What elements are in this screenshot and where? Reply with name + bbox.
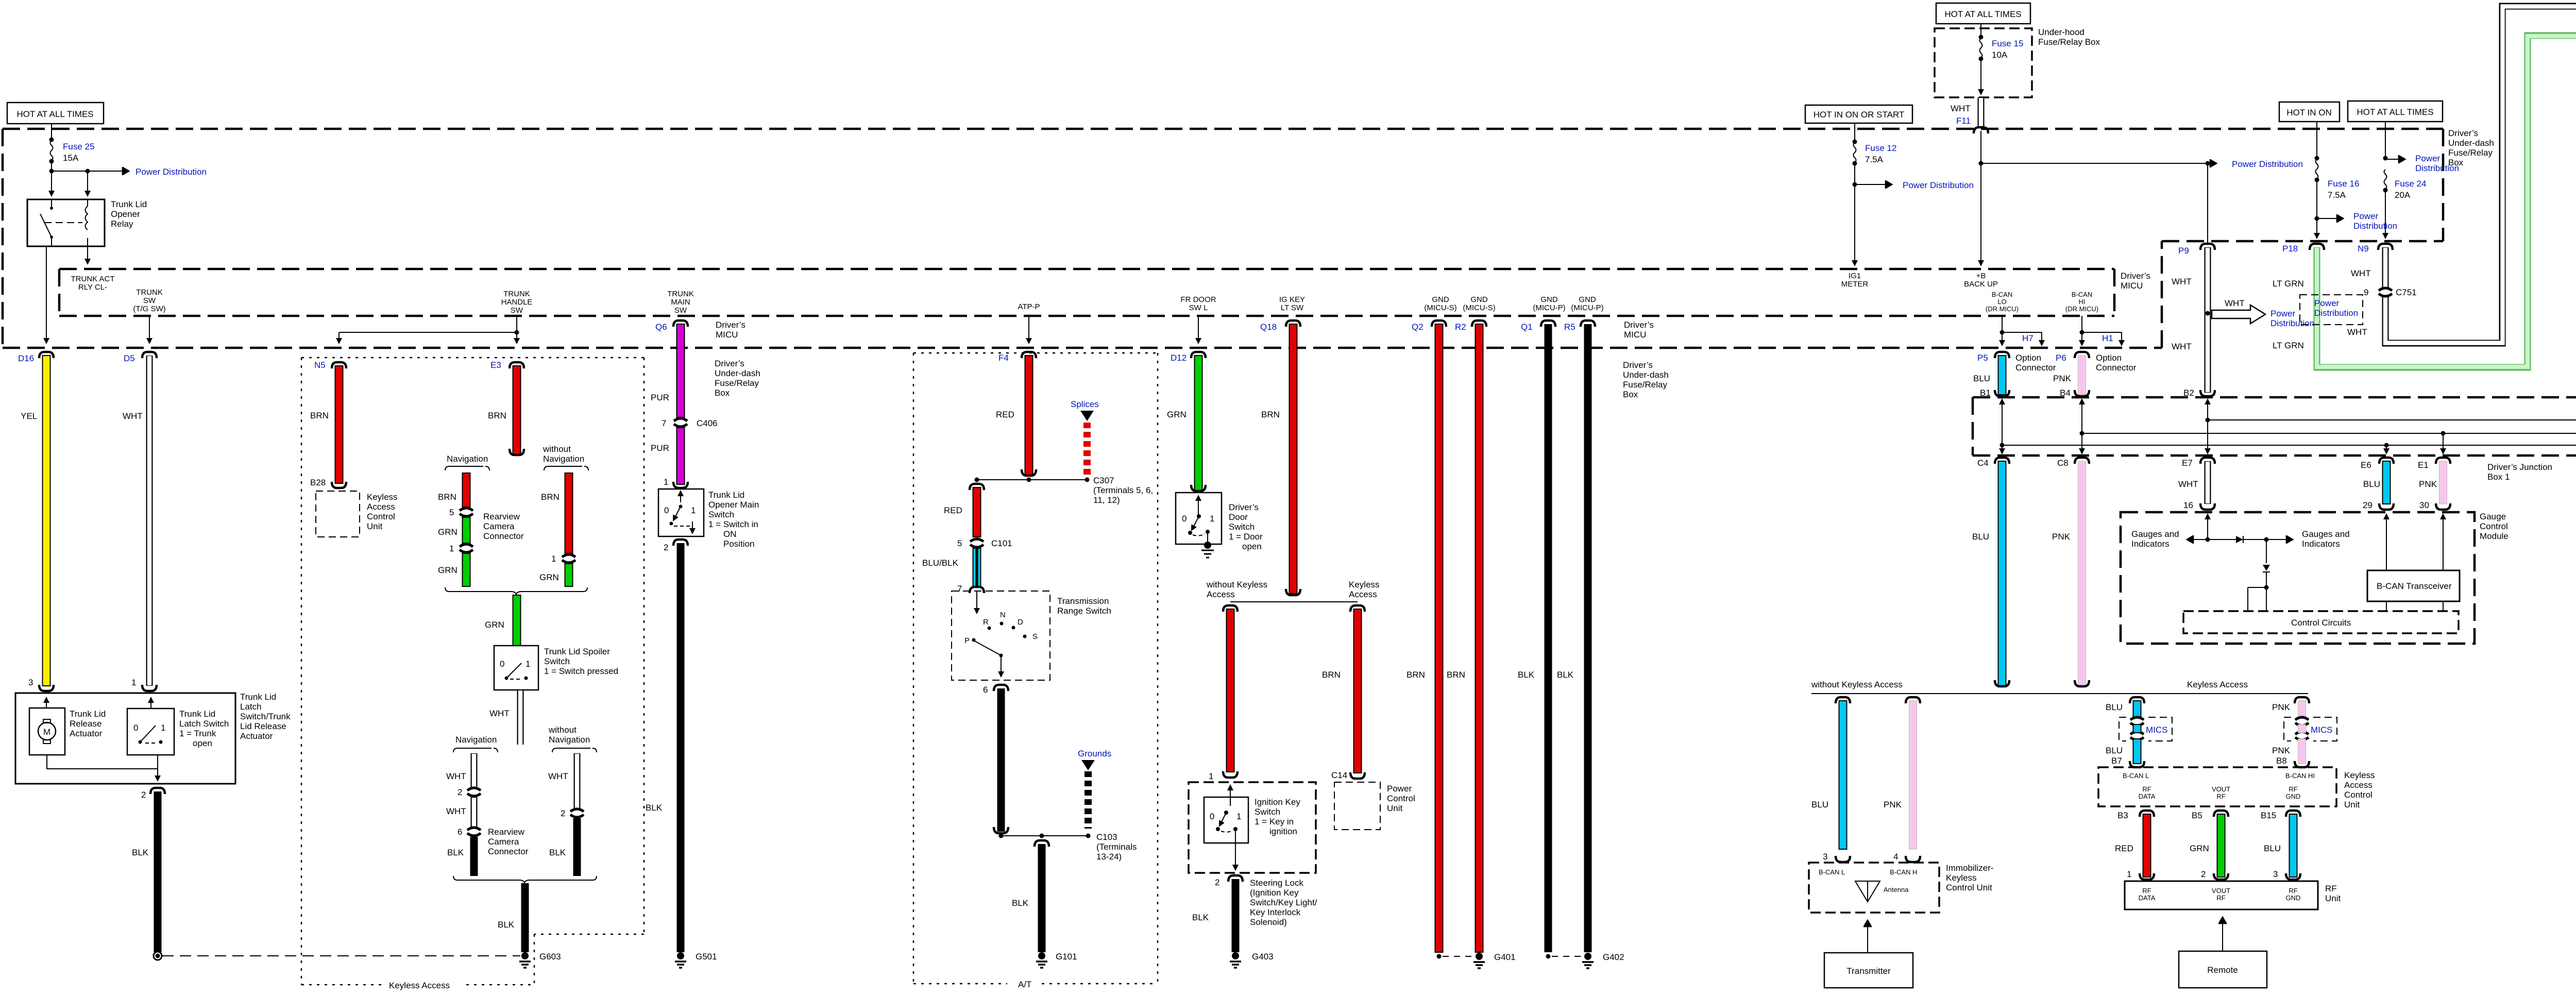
wire PNK without keyless — [1909, 701, 1917, 849]
svg-text:PUR: PUR — [651, 393, 669, 402]
svg-text:2: 2 — [664, 543, 668, 552]
svg-text:BLU: BLU — [2264, 844, 2281, 853]
svg-text:6: 6 — [983, 685, 988, 695]
wire RED dashed splices — [1083, 423, 1091, 477]
svg-text:IG KEY: IG KEY — [1279, 295, 1305, 304]
svg-text:Option: Option — [2096, 353, 2122, 363]
svg-text:BRN: BRN — [438, 492, 456, 502]
svg-text:1: 1 — [551, 554, 556, 564]
wire WHT N9 to C751 and up — [2385, 6, 2576, 343]
svg-text:0: 0 — [1210, 812, 1214, 821]
svg-text:1: 1 — [664, 477, 668, 487]
svg-text:P: P — [964, 636, 970, 645]
svg-text:Connector: Connector — [2096, 363, 2137, 373]
wire fuse25 feed — [51, 124, 52, 139]
svg-text:B7: B7 — [2111, 756, 2122, 766]
svg-text:HOT AT ALL TIMES: HOT AT ALL TIMES — [2357, 107, 2433, 117]
power distribution arrow fuse12 — [1853, 182, 1857, 187]
svg-text:GND: GND — [1470, 295, 1488, 304]
svg-text:Steering Lock: Steering Lock — [1250, 878, 1303, 888]
svg-text:Power Distribution: Power Distribution — [135, 167, 207, 177]
ignition key switch (dashed) — [1189, 782, 1316, 873]
wire RED F4 — [1025, 356, 1033, 475]
label HOT AT ALL TIMES (left) — [7, 103, 104, 124]
wire BRN navigation — [463, 473, 470, 507]
label HOT AT ALL TIMES (right) — [2348, 101, 2443, 122]
wire WHT nav2 right — [574, 753, 581, 808]
wire transmitter RF arrow — [1867, 920, 1868, 953]
wire TRUNK SW to D5 — [149, 316, 150, 343]
svg-text:Range Switch: Range Switch — [1057, 606, 1111, 616]
svg-text:20A: 20A — [2395, 190, 2411, 200]
svg-text:Ignition Key: Ignition Key — [1255, 797, 1300, 807]
svg-text:GND: GND — [1579, 295, 1596, 304]
svg-text:ON: ON — [723, 529, 737, 539]
svg-text:P18: P18 — [2282, 244, 2298, 254]
immobilizer-keyless control unit — [1809, 863, 1939, 913]
svg-text:E3: E3 — [490, 360, 501, 370]
driver's door switch — [1176, 493, 1222, 544]
svg-text:Driver’s Junction: Driver’s Junction — [2487, 462, 2552, 472]
svg-text:SW: SW — [511, 306, 523, 315]
keyless split node — [1230, 601, 1358, 602]
svg-text:BRN: BRN — [1261, 410, 1280, 419]
svg-text:B-CAN L: B-CAN L — [2123, 772, 2149, 780]
svg-text:BLK: BLK — [1012, 898, 1029, 908]
svg-text:HOT IN ON: HOT IN ON — [2286, 108, 2332, 117]
svg-text:FR DOOR: FR DOOR — [1180, 295, 1216, 304]
svg-text:Distribution: Distribution — [2415, 163, 2459, 173]
svg-text:Fuse/Relay: Fuse/Relay — [715, 378, 759, 388]
svg-text:LT SW: LT SW — [1281, 303, 1304, 312]
svg-text:Trunk Lid: Trunk Lid — [708, 490, 744, 500]
trunk lid opener relay — [27, 199, 105, 246]
svg-text:9: 9 — [2364, 288, 2368, 297]
node fuse25 out / power distribution arrow — [49, 169, 54, 174]
svg-text:MICU: MICU — [1624, 330, 1646, 340]
wire F11 to +B BACK UP — [1980, 131, 1981, 265]
svg-text:B-CAN: B-CAN — [1992, 291, 2012, 298]
svg-text:29: 29 — [2363, 500, 2372, 510]
wire BLU/BLK — [973, 548, 981, 586]
fuse F16 7.5A — [2316, 122, 2317, 157]
wire BLK to G403 — [1232, 879, 1240, 952]
wire BLU B15 — [2290, 814, 2297, 877]
svg-text:GRN: GRN — [2190, 844, 2209, 853]
svg-text:Keyless: Keyless — [2344, 770, 2375, 780]
svg-text:WHT: WHT — [446, 771, 466, 781]
wire BRN without keyless to ignition key switch — [1227, 609, 1234, 772]
svg-text:Switch: Switch — [708, 510, 734, 519]
svg-text:Rearview: Rearview — [488, 827, 525, 837]
svg-text:D12: D12 — [1171, 353, 1187, 363]
gauge control module box — [2121, 512, 2475, 644]
svg-text:Immobilizer-: Immobilizer- — [1946, 863, 1994, 873]
svg-text:R: R — [983, 618, 989, 627]
svg-text:MICS: MICS — [2311, 725, 2333, 735]
svg-text:F4: F4 — [998, 353, 1009, 363]
svg-text:Position: Position — [723, 539, 754, 549]
wire BLU keyless B7 upper — [2133, 701, 2141, 718]
svg-text:0: 0 — [500, 659, 504, 669]
wire BRN Q18 — [1290, 324, 1297, 594]
svg-text:0: 0 — [1182, 514, 1187, 524]
svg-text:S: S — [1032, 632, 1038, 641]
svg-text:15A: 15A — [63, 153, 79, 163]
svg-text:GND: GND — [2286, 792, 2301, 800]
svg-text:Power Distribution: Power Distribution — [1903, 180, 1974, 190]
svg-text:2: 2 — [457, 787, 462, 797]
svg-text:13-24): 13-24) — [1096, 852, 1122, 862]
trunk lid latch switch/trunk lid release actuator box — [15, 693, 235, 784]
svg-text:RED: RED — [944, 505, 962, 515]
svg-text:1: 1 — [1210, 514, 1214, 524]
fuse F15 10A — [1980, 24, 1981, 36]
svg-text:P5: P5 — [1977, 353, 1988, 363]
svg-text:Keyless Access: Keyless Access — [2187, 680, 2248, 689]
trunk lid spoiler switch — [494, 646, 538, 690]
svg-text:YEL: YEL — [21, 411, 37, 421]
wire BLK range switch — [997, 688, 1005, 832]
wire B-CAN HI to P6 and H1 — [2081, 316, 2082, 345]
trunk lid release actuator (motor) — [29, 708, 65, 755]
wire BLK C103 to G101 — [1035, 840, 1049, 847]
ground G402 left — [1546, 954, 1551, 959]
svg-text:open: open — [1242, 542, 1262, 551]
wire GRN B5 — [2217, 814, 2225, 877]
node splice at G603 line — [156, 954, 160, 958]
wire B-CAN LO to P5 and H7 — [2002, 316, 2003, 345]
svg-text:Switch/Key Light/: Switch/Key Light/ — [1250, 898, 1317, 907]
ground G101 — [1040, 954, 1044, 958]
svg-text:1: 1 — [526, 659, 530, 669]
wire BLU E6 to 29 — [2383, 461, 2391, 504]
svg-text:open: open — [193, 738, 212, 748]
wire PNK keyless B8 lower — [2298, 739, 2306, 764]
svg-text:C406: C406 — [697, 418, 718, 428]
Driver's MICU box — [59, 269, 2114, 316]
svg-text:7.5A: 7.5A — [1865, 155, 1884, 164]
svg-text:Distribution: Distribution — [2314, 308, 2358, 318]
svg-text:Power: Power — [2415, 154, 2441, 163]
svg-text:1: 1 — [1236, 812, 1241, 821]
svg-text:Splices: Splices — [1071, 399, 1099, 409]
svg-text:Fuse 24: Fuse 24 — [2395, 179, 2426, 189]
svg-text:H7: H7 — [2022, 333, 2033, 343]
wire P9/B2 WHT — [2205, 247, 2211, 393]
wire BLK main switch to G501 — [677, 543, 685, 952]
svg-text:GND: GND — [2286, 894, 2301, 902]
svg-text:PNK: PNK — [2053, 374, 2072, 383]
svg-text:BLK: BLK — [498, 920, 515, 930]
svg-text:G403: G403 — [1252, 952, 1274, 962]
junction box internal E6 tap — [2384, 443, 2389, 448]
keyless access split line — [1811, 693, 2308, 694]
svg-text:RF: RF — [2325, 884, 2337, 893]
svg-text:Power: Power — [2270, 309, 2296, 318]
svg-text:without Keyless: without Keyless — [1206, 580, 1267, 589]
svg-text:Navigation: Navigation — [543, 454, 584, 464]
wire YEL D16 to actuator — [43, 356, 50, 686]
svg-text:Box: Box — [715, 388, 730, 398]
svg-text:(T/G SW): (T/G SW) — [133, 305, 165, 313]
svg-text:RF: RF — [2289, 887, 2297, 895]
svg-text:RLY CL-: RLY CL- — [78, 283, 107, 292]
ground G401 left — [1437, 954, 1442, 959]
fuse F25 15A — [50, 141, 53, 160]
svg-text:RF: RF — [2142, 887, 2151, 895]
svg-text:WHT: WHT — [2347, 327, 2367, 337]
svg-text:BLU: BLU — [1972, 532, 1989, 542]
wire GRN D12 — [1195, 356, 1202, 491]
svg-text:TRUNK: TRUNK — [136, 288, 163, 297]
svg-text:BLK: BLK — [132, 848, 149, 857]
svg-text:N5: N5 — [314, 360, 326, 370]
svg-text:Under-dash: Under-dash — [715, 368, 760, 378]
svg-text:BLK: BLK — [1518, 670, 1535, 680]
wire WHT D5 to latch switch — [146, 356, 153, 686]
svg-text:LT GRN: LT GRN — [2273, 279, 2304, 289]
svg-text:LT GRN: LT GRN — [2273, 341, 2304, 350]
svg-text:Switch: Switch — [1255, 807, 1280, 817]
svg-text:Trunk Lid: Trunk Lid — [240, 692, 276, 702]
wire BRN keyless to C14 — [1354, 609, 1362, 773]
svg-text:Indicators: Indicators — [2302, 539, 2340, 549]
wire GRN navigation lower — [463, 553, 470, 586]
svg-text:Keyless: Keyless — [1349, 580, 1380, 589]
svg-text:11, 12): 11, 12) — [1093, 495, 1120, 505]
svg-text:GND: GND — [1432, 295, 1449, 304]
ground G501 — [679, 954, 683, 958]
svg-text:Box: Box — [1623, 390, 1638, 399]
svg-text:3: 3 — [28, 678, 33, 687]
svg-text:Navigation: Navigation — [447, 454, 488, 464]
wire PNK P6-B4 — [2078, 356, 2086, 395]
svg-text:Trunk Lid: Trunk Lid — [111, 199, 147, 209]
svg-text:E1: E1 — [2418, 460, 2429, 470]
svg-text:WHT: WHT — [2351, 268, 2371, 278]
svg-text:BLU: BLU — [2363, 479, 2380, 489]
wire relay pin2 — [87, 171, 88, 196]
wire BLK R5 to G402 — [1584, 324, 1592, 952]
svg-text:WHT: WHT — [2225, 298, 2245, 308]
svg-text:1: 1 — [131, 678, 136, 687]
wire LT GRN P18 route to pin 14 — [2317, 36, 2576, 367]
under-hood fuse/relay box — [1935, 28, 2032, 97]
junction box internal line B2 to G6 — [2206, 418, 2210, 423]
svg-text:DATA: DATA — [2139, 894, 2156, 902]
svg-text:Lid Release: Lid Release — [240, 721, 286, 731]
wire ATP-P to F4 — [1028, 316, 1029, 343]
keyless access control unit (dashed) — [316, 491, 360, 537]
svg-text:Remote: Remote — [2207, 965, 2238, 975]
MICS inline connector B7 — [2130, 717, 2144, 726]
svg-text:BLU: BLU — [2106, 746, 2123, 755]
wire GRN to spoiler switch — [513, 595, 521, 646]
svg-text:WHT: WHT — [1951, 104, 1971, 113]
gauges and indicators distribution — [2207, 520, 2208, 539]
svg-text:Connector: Connector — [488, 847, 529, 856]
svg-text:1 = Switch pressed: 1 = Switch pressed — [544, 666, 618, 676]
svg-text:Driver’s: Driver’s — [2448, 128, 2478, 138]
svg-text:PNK: PNK — [2419, 479, 2437, 489]
svg-text:P6: P6 — [2056, 353, 2066, 363]
svg-text:BRN: BRN — [310, 411, 329, 420]
svg-text:16: 16 — [2183, 500, 2193, 510]
svg-text:B-CAN: B-CAN — [2072, 291, 2092, 298]
svg-text:Latch Switch: Latch Switch — [179, 719, 229, 729]
svg-text:SW: SW — [674, 306, 687, 315]
wire BLK dashed grounds — [1084, 771, 1092, 829]
svg-text:Unit: Unit — [1387, 803, 1403, 813]
svg-text:Power: Power — [1387, 784, 1412, 794]
svg-text:BLU/BLK: BLU/BLK — [922, 558, 959, 568]
wire relay pin1 — [51, 171, 52, 196]
svg-text:Antenna: Antenna — [1884, 886, 1909, 893]
svg-text:GND: GND — [1540, 295, 1558, 304]
transmission range switch — [952, 591, 1050, 680]
RF unit box — [2125, 881, 2318, 909]
svg-text:Release: Release — [70, 719, 101, 729]
svg-text:BLK: BLK — [447, 848, 464, 857]
svg-text:DATA: DATA — [2139, 792, 2156, 800]
svg-text:0: 0 — [133, 723, 138, 733]
svg-text:BRN: BRN — [1322, 670, 1341, 680]
svg-text:1: 1 — [449, 544, 454, 553]
svg-text:B3: B3 — [2117, 811, 2128, 820]
svg-text:Access: Access — [1207, 589, 1235, 599]
svg-text:Gauges and: Gauges and — [2131, 529, 2179, 539]
svg-text:C751: C751 — [2396, 288, 2417, 297]
svg-text:WHT: WHT — [2172, 277, 2192, 286]
svg-text:Actuator: Actuator — [240, 731, 273, 741]
svg-text:BLU: BLU — [1973, 374, 1990, 383]
svg-text:WHT: WHT — [548, 771, 568, 781]
svg-text:2: 2 — [1215, 878, 1219, 887]
svg-text:GRN: GRN — [1167, 410, 1187, 419]
svg-text:1 = Switch in: 1 = Switch in — [708, 519, 758, 529]
wire RED B3 — [2143, 814, 2151, 877]
svg-text:GRN: GRN — [438, 527, 457, 537]
svg-text:Unit: Unit — [367, 521, 383, 531]
node C307 junction — [977, 479, 1087, 480]
svg-text:MAIN: MAIN — [671, 298, 690, 307]
svg-text:(MICU-P): (MICU-P) — [1571, 303, 1603, 312]
svg-text:MICU: MICU — [2121, 281, 2143, 291]
svg-text:Driver’s: Driver’s — [1229, 502, 1259, 512]
wire BLK nav2 right — [573, 818, 581, 876]
svg-text:Rearview: Rearview — [483, 512, 520, 521]
svg-text:HOT IN ON OR START: HOT IN ON OR START — [1814, 110, 1905, 120]
svg-text:Driver’s: Driver’s — [1623, 360, 1653, 370]
svg-text:1 = Key in: 1 = Key in — [1255, 817, 1294, 827]
svg-text:Camera: Camera — [488, 837, 519, 847]
svg-text:SW: SW — [143, 296, 156, 305]
svg-text:Solenoid): Solenoid) — [1250, 917, 1287, 927]
svg-text:BRN: BRN — [541, 492, 560, 502]
svg-text:Power: Power — [2353, 211, 2379, 221]
wire RED C307 to C101 — [970, 484, 984, 490]
svg-text:2: 2 — [2201, 869, 2206, 879]
svg-text:1 = Trunk: 1 = Trunk — [179, 729, 216, 738]
svg-text:B5: B5 — [2192, 811, 2202, 820]
remote box — [2179, 951, 2267, 988]
keyless access dotted box — [301, 358, 644, 985]
under-dash fuse/relay box (left outline) — [3, 129, 2443, 348]
fuse F12 7.5A — [1854, 123, 1855, 141]
svg-text:BLK: BLK — [1192, 913, 1209, 922]
A/T dotted box — [913, 353, 1158, 984]
svg-text:PNK: PNK — [2052, 532, 2071, 542]
svg-text:METER: METER — [1841, 280, 1869, 289]
fuse F24 20A — [2385, 122, 2386, 157]
svg-text:RF: RF — [2142, 785, 2151, 793]
wire BRN without navigation — [565, 473, 573, 553]
svg-text:MICS: MICS — [2146, 725, 2168, 735]
svg-text:3: 3 — [1823, 852, 1827, 862]
power distribution fuse24 — [2385, 159, 2405, 160]
svg-text:C101: C101 — [991, 538, 1012, 548]
svg-text:Fuse/Relay Box: Fuse/Relay Box — [2038, 37, 2100, 47]
svg-text:HOT AT ALL TIMES: HOT AT ALL TIMES — [1944, 9, 2021, 19]
svg-text:Driver’s: Driver’s — [716, 320, 745, 330]
svg-text:ignition: ignition — [1269, 827, 1297, 836]
svg-text:Trunk Lid: Trunk Lid — [70, 709, 106, 719]
svg-text:D16: D16 — [18, 353, 34, 363]
svg-text:Box 1: Box 1 — [2487, 472, 2510, 482]
svg-text:2: 2 — [561, 808, 565, 818]
svg-text:HOT AT ALL TIMES: HOT AT ALL TIMES — [16, 109, 93, 119]
svg-text:Access: Access — [367, 502, 395, 512]
svg-text:BLK: BLK — [549, 848, 566, 857]
svg-text:BACK UP: BACK UP — [1964, 280, 1998, 289]
svg-text:Unit: Unit — [2344, 800, 2360, 810]
svg-text:GRN: GRN — [438, 565, 457, 575]
svg-text:BLU: BLU — [2106, 702, 2123, 712]
svg-text:GRN: GRN — [539, 572, 559, 582]
svg-text:Connector: Connector — [483, 531, 524, 541]
wire FR DOOR SW to D12 — [1198, 316, 1199, 343]
Driver's Junction Box 1 — [1973, 397, 2576, 456]
svg-text:VOUT: VOUT — [2212, 887, 2230, 895]
svg-text:PNK: PNK — [2272, 702, 2291, 712]
wire BLK to G603 — [521, 883, 529, 952]
junction box internal vertical B2-E7 — [2207, 399, 2208, 409]
svg-text:PNK: PNK — [1884, 800, 1902, 810]
node P9 power distribution arrow — [2206, 311, 2210, 316]
junction box internal line B1 to G2 / MICS — [2000, 443, 2005, 448]
label HOT IN ON OR START — [1805, 105, 1912, 123]
svg-text:B-CAN L: B-CAN L — [1819, 868, 1845, 876]
closing bracket nav2 — [453, 876, 597, 883]
svg-text:RED: RED — [996, 410, 1014, 419]
junction box internal vertical B4-C8 — [2081, 399, 2082, 409]
svg-text:H1: H1 — [2102, 333, 2113, 343]
svg-text:Keyless: Keyless — [1946, 873, 1977, 883]
svg-text:SW L: SW L — [1189, 303, 1208, 312]
wire trunk handle sw split — [339, 316, 517, 343]
svg-text:E7: E7 — [2182, 458, 2193, 468]
svg-text:HI: HI — [2079, 298, 2086, 306]
wire WHT nav2 left lower — [471, 797, 478, 827]
svg-text:Q6: Q6 — [655, 322, 667, 332]
wire BRN N5 — [335, 366, 343, 483]
svg-text:F11: F11 — [1956, 116, 1971, 126]
svg-text:RED: RED — [2115, 844, 2133, 853]
svg-text:Control: Control — [2480, 521, 2508, 531]
svg-text:Fuse 15: Fuse 15 — [1992, 39, 2023, 48]
svg-text:Fuse/Relay: Fuse/Relay — [1623, 380, 1667, 390]
